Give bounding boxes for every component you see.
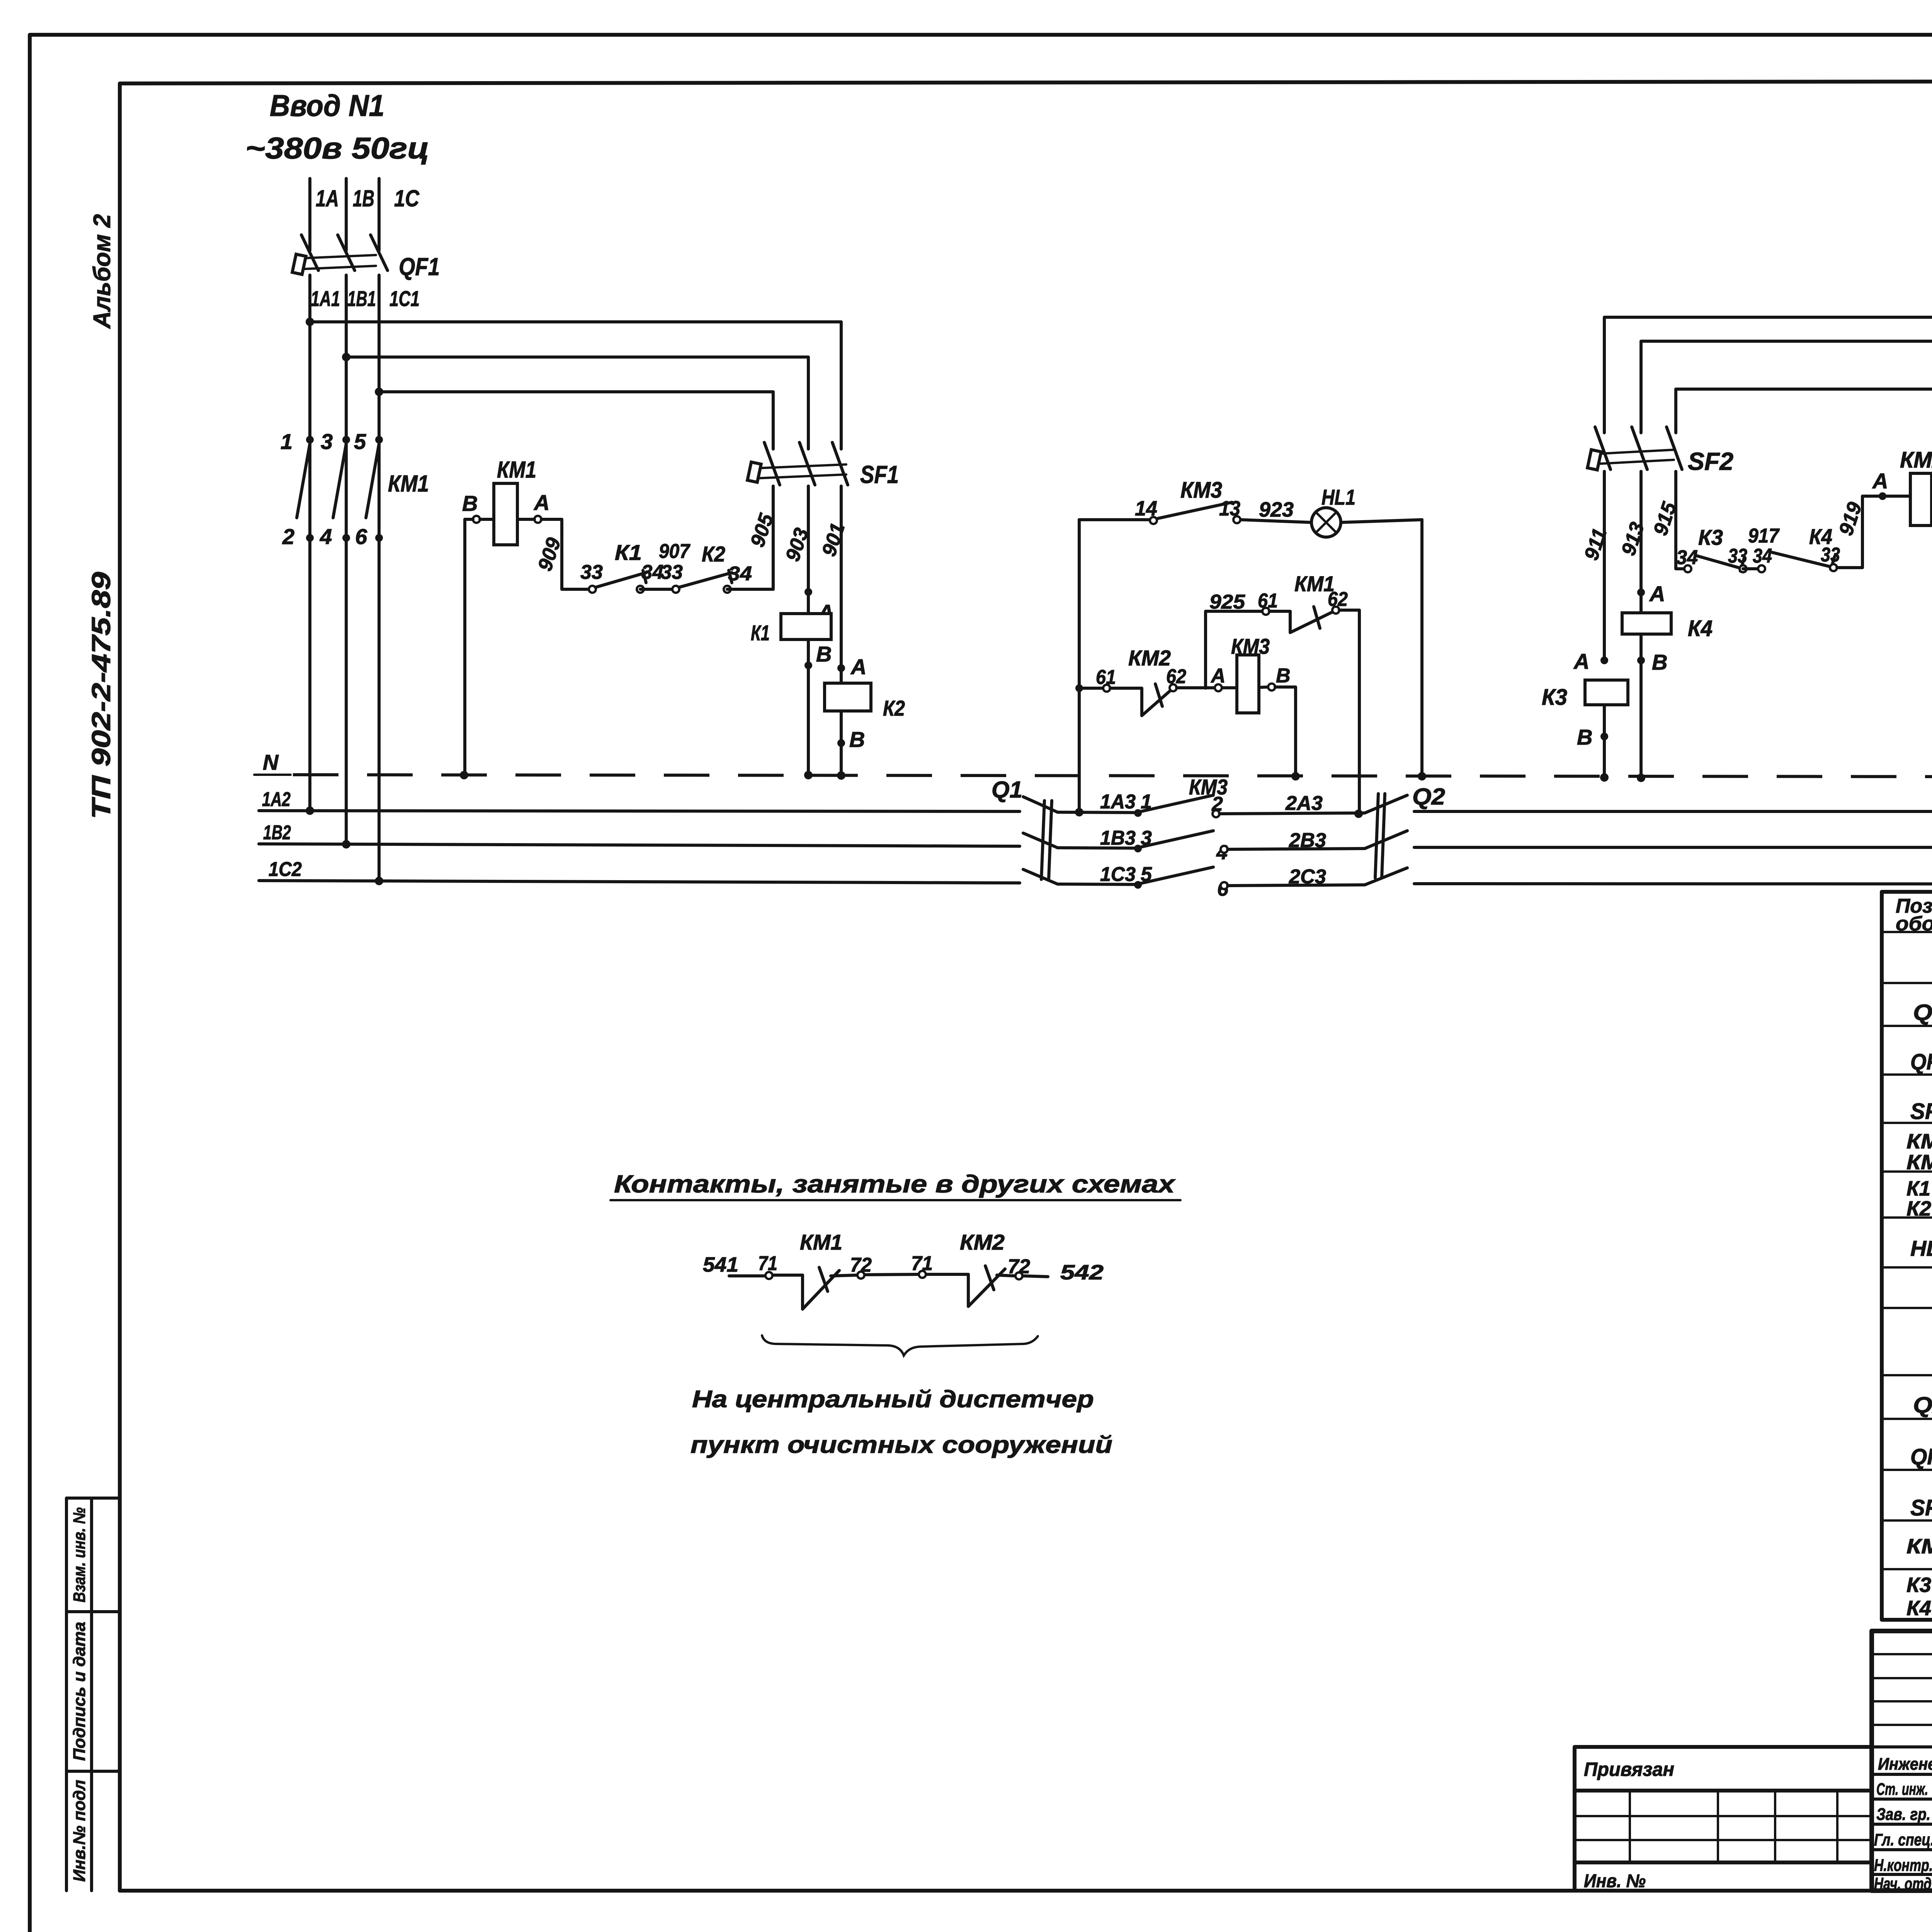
svg-text:ТП 902-2-475.89: ТП 902-2-475.89 xyxy=(87,572,116,819)
node KM3coil on N xyxy=(1291,772,1300,781)
svg-text:В: В xyxy=(462,491,478,515)
svg-text:5: 5 xyxy=(354,429,366,454)
svg-text:QF2: QF2 xyxy=(1910,1444,1932,1469)
svg-text:К2: К2 xyxy=(883,696,905,720)
svg-text:2: 2 xyxy=(282,524,294,549)
svg-text:6: 6 xyxy=(355,524,367,549)
node A KM3 xyxy=(1215,684,1222,691)
svg-text:КМ2: КМ2 xyxy=(960,1230,1005,1254)
node 72 KM1 xyxy=(857,1272,864,1279)
svg-text:Q2: Q2 xyxy=(1913,1393,1932,1418)
svg-text:33: 33 xyxy=(661,561,683,583)
svg-text:Взам. инв. №: Взам. инв. № xyxy=(70,1507,89,1602)
node 3 xyxy=(1134,845,1142,852)
svg-text:Контакты, занятые в других схе: Контакты, занятые в других схемах xyxy=(614,1170,1176,1198)
svg-text:33: 33 xyxy=(580,561,603,583)
node 6 xyxy=(1221,882,1228,889)
relay contact K2 NO xyxy=(661,542,752,593)
svg-text:КМ3: КМ3 xyxy=(1180,478,1222,503)
node 5 xyxy=(1134,881,1142,889)
wire 915 xyxy=(1676,471,1684,569)
wire B KM3 to N xyxy=(1275,687,1296,776)
svg-text:Подпись и дата: Подпись и дата xyxy=(70,1622,89,1761)
node N K1 xyxy=(804,771,813,779)
node B K2 xyxy=(837,739,845,747)
svg-text:2А3: 2А3 xyxy=(1285,792,1323,815)
svg-text:Гл. спец.: Гл. спец. xyxy=(1874,1830,1932,1849)
title block grid xyxy=(1872,1631,1932,1891)
svg-text:1: 1 xyxy=(281,429,293,454)
wire 33 to 919 xyxy=(1837,496,1879,568)
svg-text:Зав. гр.: Зав. гр. xyxy=(1876,1805,1930,1824)
wire 1A3 xyxy=(1058,812,1138,813)
node 61 KM2 xyxy=(1103,685,1110,692)
svg-text:1А1: 1А1 xyxy=(311,286,340,311)
node A K4 xyxy=(1637,588,1645,596)
node 72 KM2 xyxy=(1015,1272,1022,1279)
breaker SF2 xyxy=(1587,427,1733,475)
wire K3 to N xyxy=(1603,705,1606,777)
node B K4 xyxy=(1637,656,1645,664)
svg-text:1А2: 1А2 xyxy=(262,788,291,811)
relay contact K3 NO xyxy=(1696,525,1745,571)
svg-text:А: А xyxy=(1573,649,1589,673)
svg-text:В: В xyxy=(816,642,832,666)
svg-text:КМ1: КМ1 xyxy=(388,471,429,497)
node 61 KM1aux xyxy=(1262,608,1269,615)
svg-text:SF1: SF1 xyxy=(1910,1099,1932,1124)
telemetry contact chain wire xyxy=(729,1274,1048,1277)
node 34 K3 xyxy=(1684,565,1691,572)
svg-text:QF1: QF1 xyxy=(399,253,440,281)
contactor contact KM1 NC aux xyxy=(1269,571,1335,633)
node 62 KM1aux xyxy=(1332,607,1339,614)
wire 2C3 xyxy=(1228,885,1365,886)
svg-text:~380в 50гц: ~380в 50гц xyxy=(245,131,429,165)
svg-text:К2: К2 xyxy=(1906,1197,1931,1220)
svg-text:1С3: 1С3 xyxy=(1100,863,1136,886)
svg-text:А: А xyxy=(533,490,549,515)
svg-text:1С2: 1С2 xyxy=(269,858,302,881)
svg-text:33: 33 xyxy=(1821,544,1840,566)
wire 2B3 xyxy=(1228,849,1365,849)
svg-text:На центральный диспетчер: На центральный диспетчер xyxy=(692,1386,1094,1413)
contactor coil KM3 xyxy=(1231,634,1270,713)
node 2A3 junction xyxy=(1354,810,1363,818)
svg-text:К1: К1 xyxy=(751,621,770,645)
svg-text:В: В xyxy=(1276,665,1291,687)
bus 2C2 xyxy=(1414,884,1932,884)
node tap 1C xyxy=(375,388,383,396)
wire 903 xyxy=(807,486,810,614)
svg-text:907: 907 xyxy=(659,540,690,563)
node A K2 xyxy=(837,664,845,672)
node 14 xyxy=(1150,517,1157,524)
wire 913 xyxy=(1639,471,1643,613)
node B K1 xyxy=(804,662,812,669)
node 62 KM2 xyxy=(1170,684,1177,691)
node 13 xyxy=(1233,516,1240,523)
contactor coil KM2 xyxy=(1886,447,1932,526)
svg-text:SF2: SF2 xyxy=(1688,447,1733,475)
svg-text:А: А xyxy=(1872,469,1888,493)
node 1 xyxy=(1134,809,1142,817)
wire 905 xyxy=(772,486,775,589)
svg-text:КМ2: КМ2 xyxy=(1900,447,1932,473)
node lamp branch on N xyxy=(1418,772,1426,781)
contactor coil KM1 xyxy=(462,457,589,775)
node 33 K3 xyxy=(1740,565,1747,572)
svg-text:КМ1: КМ1 xyxy=(800,1230,842,1254)
svg-text:Ст. инж.: Ст. инж. xyxy=(1876,1780,1928,1799)
svg-text:А: А xyxy=(1210,665,1226,687)
breaker QF1 xyxy=(292,235,440,281)
svg-text:2В3: 2В3 xyxy=(1289,829,1326,852)
wire K2 to N xyxy=(840,711,843,776)
node 1B2 end xyxy=(342,840,350,849)
contactor contact KM3 row2 xyxy=(1141,831,1213,847)
bus N dashed xyxy=(293,775,1932,777)
node N K3 xyxy=(1600,773,1609,782)
node 71 KM2 xyxy=(919,1271,926,1278)
contactor contact KM2 NC telemetry xyxy=(960,1230,1005,1306)
stamp sidebar boxes xyxy=(66,1498,120,1891)
wire 62-A xyxy=(1177,687,1268,688)
wire tap A to SF1 xyxy=(310,322,841,449)
node tap 1B xyxy=(342,353,350,361)
node B KM3 xyxy=(1268,684,1275,690)
svg-text:К2: К2 xyxy=(702,542,725,566)
svg-text:обозн.: обозн. xyxy=(1896,913,1932,935)
wire tap 2C to SF2 xyxy=(1604,317,1932,433)
svg-text:Нач. отд.: Нач. отд. xyxy=(1874,1874,1932,1893)
contactor contact KM1 NC telemetry xyxy=(800,1230,842,1309)
wire 901 xyxy=(840,486,843,683)
wire K4 to N xyxy=(1639,634,1643,778)
wire K1 to N xyxy=(807,639,810,775)
node N KM1coil xyxy=(460,771,468,779)
svg-text:1С1: 1С1 xyxy=(389,286,420,311)
svg-text:А: А xyxy=(1649,582,1665,606)
svg-text:62: 62 xyxy=(1166,665,1186,688)
svg-text:72: 72 xyxy=(850,1254,872,1276)
svg-text:QF1: QF1 xyxy=(1910,1049,1932,1075)
svg-text:КМ1: КМ1 xyxy=(497,457,536,483)
svg-text:34: 34 xyxy=(1753,545,1772,567)
node B K3 xyxy=(1600,733,1608,740)
contactor contact KM3 row1 xyxy=(1141,795,1213,811)
latch branch wire 925 xyxy=(1206,611,1262,688)
wire 1C3 xyxy=(1058,884,1138,884)
svg-text:1В1: 1В1 xyxy=(347,286,376,311)
svg-text:К1: К1 xyxy=(615,540,642,565)
relay contact K1 NO xyxy=(580,540,663,593)
wire lamp branch left vertical xyxy=(1078,520,1081,812)
wire tap C to SF1 xyxy=(379,392,773,449)
wire 911 xyxy=(1603,471,1606,660)
svg-text:925: 925 xyxy=(1209,591,1245,613)
svg-text:К3: К3 xyxy=(1542,685,1567,710)
svg-text:Инв.№ подл: Инв.№ подл xyxy=(70,1780,89,1882)
node lamp branch to KM2 row xyxy=(1075,684,1083,692)
svg-text:К4: К4 xyxy=(1688,616,1713,641)
svg-text:1В: 1В xyxy=(353,185,374,211)
node A KM2coil xyxy=(1879,492,1886,500)
node 1C2 end xyxy=(375,877,383,885)
svg-text:Н.контр.: Н.контр. xyxy=(1874,1856,1932,1875)
bus 2B2 xyxy=(1414,846,1932,849)
svg-text:71: 71 xyxy=(758,1252,777,1275)
svg-text:1А: 1А xyxy=(316,185,339,211)
svg-text:1А3: 1А3 xyxy=(1100,791,1136,813)
svg-text:2С3: 2С3 xyxy=(1289,866,1326,888)
bus 2A2 xyxy=(1414,810,1932,813)
node A K3 xyxy=(1600,656,1608,664)
wire 34-33 xyxy=(640,588,676,591)
svg-text:В: В xyxy=(1652,650,1667,674)
svg-text:Инв. №: Инв. № xyxy=(1584,1871,1646,1891)
svg-text:14: 14 xyxy=(1135,497,1157,520)
relay coil K1 xyxy=(751,614,831,645)
svg-text:1В3: 1В3 xyxy=(1100,827,1136,849)
svg-text:HL1: HL1 xyxy=(1321,485,1355,509)
svg-text:71: 71 xyxy=(911,1252,933,1275)
svg-text:КМ2: КМ2 xyxy=(1128,646,1171,670)
packet switch Q2 xyxy=(1365,784,1445,885)
svg-text:В: В xyxy=(849,727,865,752)
svg-text:13: 13 xyxy=(1219,497,1240,520)
svg-text:N: N xyxy=(263,750,279,774)
interlock row wire xyxy=(1079,687,1103,690)
svg-text:КМ3: КМ3 xyxy=(1906,1151,1932,1174)
contactor contact KM2 NC xyxy=(1110,646,1171,716)
packet switch Q1 xyxy=(992,777,1058,884)
svg-text:Q2: Q2 xyxy=(1412,784,1445,810)
lamp HL1 xyxy=(1311,485,1355,537)
svg-text:Инженер: Инженер xyxy=(1878,1755,1932,1774)
svg-text:4: 4 xyxy=(320,524,332,549)
wire 34 to 905 xyxy=(727,588,773,591)
svg-text:33: 33 xyxy=(1728,545,1747,567)
wire tap 2A to SF2 xyxy=(1676,389,1932,433)
wire 2A3 xyxy=(1219,813,1365,814)
svg-text:SF2: SF2 xyxy=(1910,1495,1932,1520)
parts table grid xyxy=(1882,892,1932,1620)
svg-text:SF1: SF1 xyxy=(860,461,899,488)
breaker SF1 xyxy=(747,442,899,488)
node 71 KM1 xyxy=(765,1272,772,1279)
svg-text:КМ1: КМ1 xyxy=(1906,1130,1932,1153)
brace xyxy=(762,1335,1038,1355)
contactor contact KM3 row3 xyxy=(1141,867,1213,883)
wire lamp branch right vertical xyxy=(1420,520,1423,776)
svg-text:Q1: Q1 xyxy=(992,777,1022,803)
svg-text:Q1: Q1 xyxy=(1913,1000,1932,1025)
node 34 K4 xyxy=(1758,565,1765,572)
svg-text:Привязан: Привязан xyxy=(1584,1759,1674,1780)
svg-text:КМ2: КМ2 xyxy=(1906,1535,1932,1558)
node A K1 xyxy=(804,588,812,596)
svg-text:541: 541 xyxy=(703,1253,738,1276)
svg-text:923: 923 xyxy=(1259,498,1294,521)
svg-text:К3: К3 xyxy=(1698,525,1723,549)
svg-text:пункт очистных сооружений: пункт очистных сооружений xyxy=(690,1432,1112,1458)
svg-text:72: 72 xyxy=(1008,1255,1030,1278)
node N K2 xyxy=(837,771,845,780)
contactor KM1 main contacts xyxy=(281,429,429,549)
svg-text:61: 61 xyxy=(1096,666,1116,689)
svg-text:А: А xyxy=(850,655,866,679)
svg-text:К4: К4 xyxy=(1906,1597,1931,1620)
svg-text:В: В xyxy=(1577,725,1592,749)
svg-text:62: 62 xyxy=(1328,588,1348,611)
wire phase 1B vertical xyxy=(345,179,348,844)
svg-text:К1: К1 xyxy=(1906,1177,1930,1200)
node tap 1A xyxy=(306,318,314,326)
linked stamp box Привязан xyxy=(1575,1747,1872,1891)
svg-text:542: 542 xyxy=(1060,1261,1104,1284)
svg-text:3: 3 xyxy=(321,429,333,454)
node 2 xyxy=(1213,810,1219,817)
node 33 K4 xyxy=(1830,564,1837,571)
contactor contact KM3 aux xyxy=(1157,502,1232,519)
node lamp branch on 1A3 xyxy=(1075,808,1083,816)
node 4 xyxy=(1221,846,1228,853)
wire phase 1A vertical xyxy=(308,179,311,811)
svg-text:61: 61 xyxy=(1258,590,1278,612)
wire 62 down to 2A3 xyxy=(1339,610,1359,813)
wire phase 1C vertical xyxy=(378,179,381,881)
relay coil K3 xyxy=(1542,680,1628,710)
relay coil K2 xyxy=(825,683,905,720)
node 1A2 end xyxy=(306,806,314,815)
wire 1B3 xyxy=(1058,848,1138,848)
svg-text:Альбом 2: Альбом 2 xyxy=(89,214,116,329)
wire 33-34 xyxy=(1743,567,1762,570)
wire tap B to SF1 xyxy=(346,357,808,449)
svg-text:HL1: HL1 xyxy=(1910,1236,1932,1260)
svg-text:Ввод N1: Ввод N1 xyxy=(270,88,384,122)
signal lamp circuit top wire xyxy=(1079,520,1422,522)
wire tap 2B to SF2 xyxy=(1641,341,1932,433)
node N K4 xyxy=(1637,774,1645,782)
relay coil K4 xyxy=(1622,613,1713,641)
relay contact K4 NO xyxy=(1770,524,1836,570)
svg-text:1В2: 1В2 xyxy=(263,821,291,844)
svg-text:917: 917 xyxy=(1748,525,1780,547)
svg-text:К3: К3 xyxy=(1906,1573,1931,1597)
svg-text:34: 34 xyxy=(1676,546,1698,569)
svg-text:1С: 1С xyxy=(394,185,420,211)
